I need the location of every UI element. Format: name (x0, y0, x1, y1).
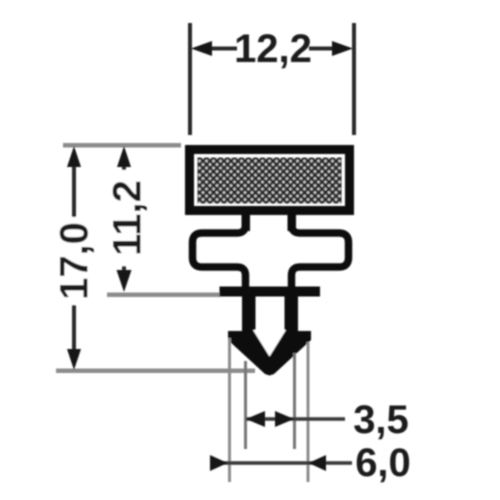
dimension 12,2 left extension line (188, 23, 192, 135)
arrow head (228, 331, 311, 376)
crossbar (220, 287, 321, 297)
dimension 6,0 left arrow (210, 455, 228, 471)
extension line L3 (3,5 right) (293, 353, 296, 449)
svg-text:11,2: 11,2 (106, 180, 150, 256)
magnet hatched insert (198, 158, 342, 204)
dimension 12,2 right arrow (332, 41, 353, 56)
dimension 12,2 line left segment (206, 47, 237, 51)
arrow head inner white chevron (253, 330, 286, 357)
dimension 12,2 left arrow (191, 41, 212, 56)
dimension 6,0 line (211, 461, 352, 465)
bottom extension line for 17,0 (56, 369, 255, 374)
dimension 17,0 line (72, 160, 76, 358)
svg-text:12,2: 12,2 (234, 27, 312, 71)
dimension 17,0 top arrow (67, 146, 81, 167)
dimension 17,0 label (53, 217, 97, 305)
dimension 3,5 right arrow (275, 411, 294, 427)
dimension 6,0 right arrow (309, 455, 327, 471)
dimension 11,2 label (106, 170, 150, 266)
extension line L1 (6,0 left) (228, 338, 231, 482)
magnet pocket outer frame (190, 150, 350, 211)
top extension line for 17,0 and 11,2 (63, 143, 181, 148)
right connecting leg (288, 210, 297, 231)
svg-text:17,0: 17,0 (53, 222, 97, 300)
bottom extension line for 11,2 (107, 293, 221, 298)
dimension 12,2 line right segment (309, 47, 339, 51)
dimension 12,2 right extension line (352, 23, 356, 135)
svg-text:6,0: 6,0 (355, 441, 411, 485)
bulb chamber outline (193, 212, 349, 288)
left connecting leg (242, 210, 251, 231)
dimension 11,2 top arrow (117, 146, 131, 167)
dimension 3,5 line (246, 417, 345, 421)
arrow stem left wall (242, 296, 256, 334)
svg-text:3,5: 3,5 (353, 398, 409, 442)
extension line L2 (3,5 left) (244, 361, 247, 449)
dimension 11,2 bottom arrow (117, 270, 132, 292)
arrow stem right wall (285, 296, 299, 334)
dimension 3,5 left arrow (246, 411, 265, 427)
extension line L4 (6,0 right) (307, 342, 310, 482)
dimension 17,0 bottom arrow (67, 349, 81, 370)
dimension 11,2 line (122, 160, 126, 282)
